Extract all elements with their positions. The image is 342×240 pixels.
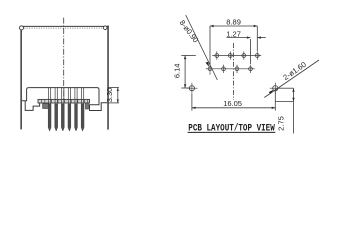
leader 2-dia1.60	[264, 60, 319, 98]
pcb centerline	[233, 43, 235, 100]
bottom row crosshair line	[206, 68, 255, 70]
hole B2	[222, 65, 226, 73]
dimension 8.89	[210, 25, 257, 64]
hole T3	[242, 51, 246, 59]
pin 3	[61, 88, 64, 131]
dimension 16.05	[192, 91, 275, 110]
small pin holes: top row	[208, 51, 259, 75]
hole B3	[235, 65, 239, 73]
pin 2	[55, 88, 58, 131]
svg-text:1.27: 1.27	[226, 30, 241, 39]
title underline	[188, 131, 276, 133]
side view: top-right corner circle	[103, 26, 107, 30]
leader 8-dia0.90	[186, 15, 218, 80]
dimension 3.30 (side view pin standoff)	[107, 88, 119, 103]
top row crosshair line	[212, 55, 261, 57]
hole T1	[215, 51, 219, 59]
side view: right sub-band stub	[86, 103, 89, 109]
side view: top-left corner circle	[20, 26, 24, 30]
pin 5	[75, 88, 78, 131]
side view: top edge	[20, 25, 109, 27]
mounting hole left (2-dia1.60)	[186, 83, 197, 94]
svg-text:2.75: 2.75	[276, 116, 285, 131]
hole B1	[208, 63, 212, 75]
side view: left inner contour with rounded corner	[22, 88, 29, 101]
hole T4	[255, 51, 259, 59]
side view: right shield wall / mounting post	[107, 26, 109, 130]
svg-text:8.89: 8.89	[226, 18, 241, 27]
svg-text:3.30: 3.30	[105, 88, 114, 103]
hole B4	[249, 65, 253, 73]
side view: left shield wall / mounting post	[20, 26, 22, 130]
dimension 1.27	[227, 36, 266, 64]
side view: 6 through-hole pins	[48, 88, 84, 131]
svg-text:6.14: 6.14	[172, 63, 181, 78]
side view: vertical centerline	[63, 18, 65, 100]
pin 6	[81, 88, 84, 131]
side view: contact comb band	[38, 99, 90, 103]
dimension 2.75	[275, 88, 294, 133]
pin 4	[68, 88, 71, 131]
side view: body bottom edge	[29, 87, 97, 89]
side view: left sub-band block	[43, 104, 49, 109]
side view: left lower step	[25, 101, 39, 111]
svg-text:2-ø1.60: 2-ø1.60	[281, 60, 307, 82]
hole T2	[228, 51, 232, 59]
side view: hidden dotted line under top edge	[22, 27, 106, 29]
side view: right step to wall	[90, 88, 108, 111]
pin 1	[48, 88, 51, 131]
dimension 6.14	[181, 56, 196, 89]
side view: comb teeth ticks	[42, 99, 88, 103]
mounting hole right (2-dia1.60)	[270, 83, 281, 94]
svg-text:16.05: 16.05	[223, 99, 242, 108]
